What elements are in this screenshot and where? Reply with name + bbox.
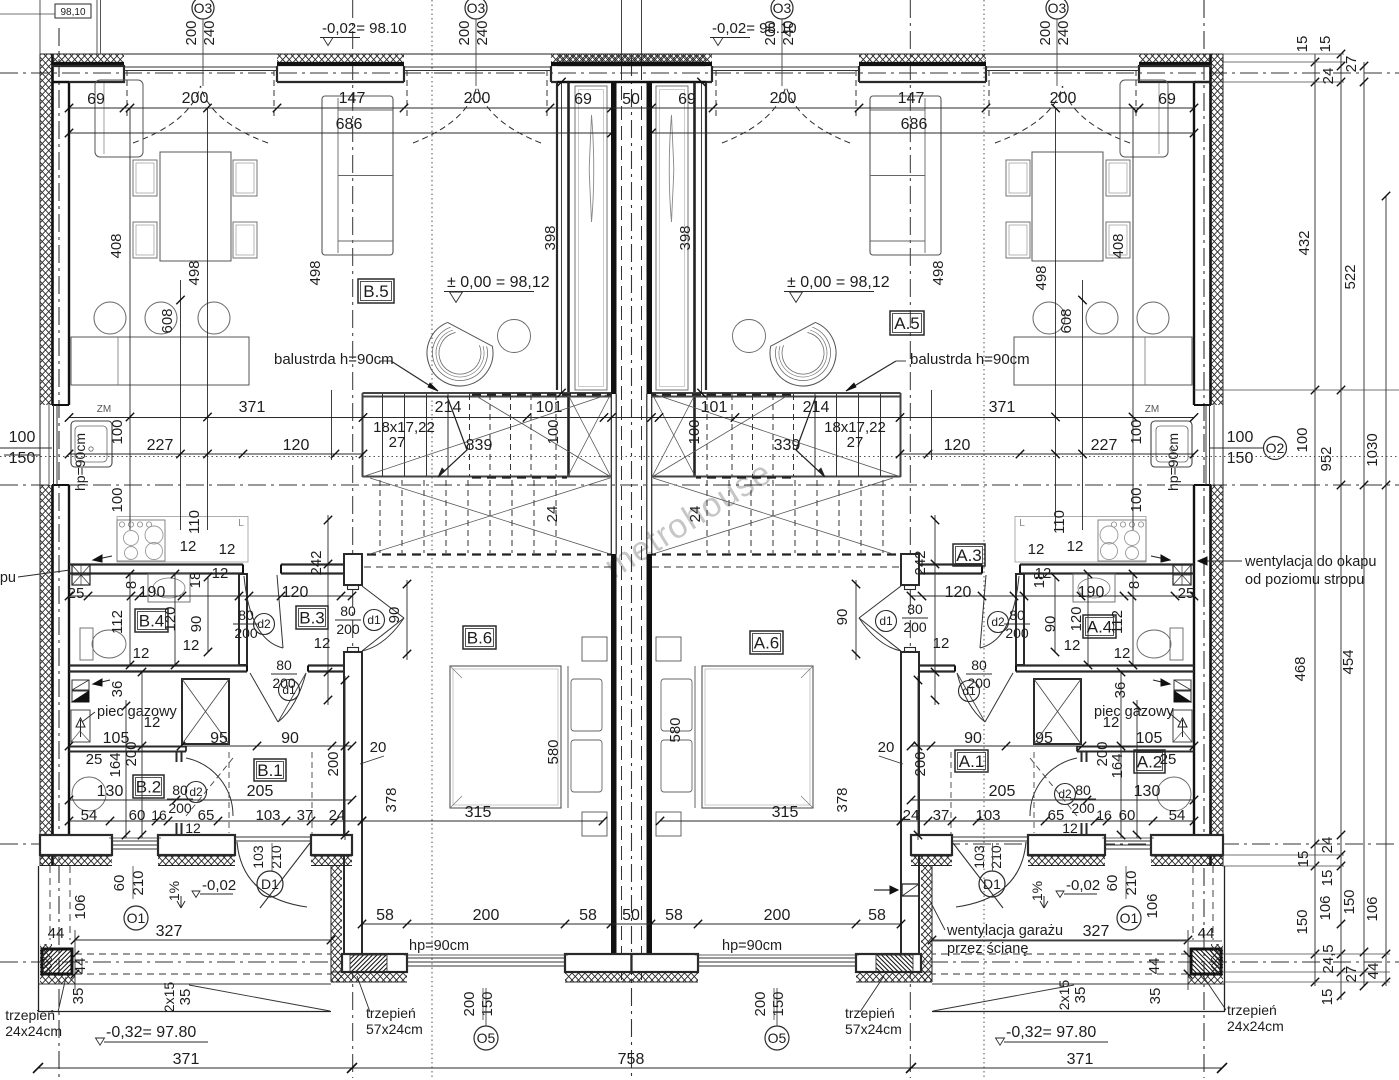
dimension row mirror right bbox=[901, 820, 1194, 822]
svg-text:12: 12 bbox=[185, 820, 201, 836]
svg-text:44: 44 bbox=[48, 925, 65, 942]
svg-text:58: 58 bbox=[665, 907, 683, 924]
svg-text:1%: 1% bbox=[166, 881, 182, 901]
svg-text:20: 20 bbox=[878, 739, 895, 756]
svg-text:-0,32= 97.80: -0,32= 97.80 bbox=[1006, 1024, 1096, 1041]
svg-text:200: 200 bbox=[752, 991, 769, 1016]
dimension row 105-95-90 left bbox=[69, 745, 352, 747]
svg-text:B.1: B.1 bbox=[257, 761, 283, 780]
top-left corner fragment bbox=[55, 4, 91, 18]
svg-text:44: 44 bbox=[1198, 925, 1215, 942]
svg-text:105: 105 bbox=[1136, 730, 1163, 747]
svg-text:44: 44 bbox=[1146, 958, 1163, 975]
svg-text:95: 95 bbox=[1035, 730, 1053, 747]
boiler room fixtures vents boiler basin unit B bbox=[72, 680, 89, 690]
svg-text:O3: O3 bbox=[1048, 0, 1067, 16]
svg-text:103: 103 bbox=[255, 807, 280, 824]
svg-text:90: 90 bbox=[964, 730, 982, 747]
svg-text:210: 210 bbox=[1123, 870, 1140, 895]
svg-text:24: 24 bbox=[544, 506, 561, 523]
svg-text:12: 12 bbox=[1114, 645, 1131, 662]
svg-text:-0,02: -0,02 bbox=[202, 877, 236, 894]
svg-text:O3: O3 bbox=[194, 0, 213, 16]
svg-text:100: 100 bbox=[1128, 419, 1145, 444]
svg-text:24,5: 24,5 bbox=[1320, 944, 1337, 973]
svg-text:wentylacja do okapu: wentylacja do okapu bbox=[1244, 554, 1376, 570]
svg-text:112: 112 bbox=[109, 610, 126, 634]
svg-text:A.6: A.6 bbox=[754, 634, 780, 653]
svg-text:12: 12 bbox=[1028, 541, 1045, 558]
svg-text:wentylacja garażu: wentylacja garażu bbox=[946, 923, 1063, 939]
room label B.3 bbox=[296, 606, 328, 629]
svg-text:A.2: A.2 bbox=[1137, 753, 1163, 772]
svg-text:O2: O2 bbox=[1266, 440, 1285, 456]
svg-text:200: 200 bbox=[473, 907, 500, 924]
svg-text:ZM: ZM bbox=[1145, 404, 1159, 415]
dining table and chairs and cabinet unit B bbox=[160, 152, 231, 261]
svg-text:16: 16 bbox=[1096, 807, 1112, 823]
party wall extension line right top bbox=[641, 0, 643, 66]
svg-text:69: 69 bbox=[1158, 91, 1176, 108]
svg-text:d1: d1 bbox=[282, 683, 296, 697]
axis markers O5 with 200/150 labels bbox=[474, 1026, 498, 1050]
svg-text:d1: d1 bbox=[879, 614, 893, 628]
svg-text:200: 200 bbox=[123, 741, 140, 766]
party wall cavity dashed line right bbox=[641, 66, 643, 982]
svg-text:-0,02: -0,02 bbox=[1066, 877, 1100, 894]
svg-text:100: 100 bbox=[1294, 427, 1311, 452]
svg-text:25: 25 bbox=[1160, 751, 1177, 768]
svg-text:242: 242 bbox=[308, 550, 325, 575]
svg-text:80: 80 bbox=[1009, 607, 1025, 623]
room label B.1 bbox=[254, 759, 286, 781]
svg-text:200: 200 bbox=[770, 90, 797, 107]
dimension row kitchen 227/120 left bbox=[69, 453, 363, 455]
svg-text:200: 200 bbox=[461, 991, 478, 1016]
svg-text:210: 210 bbox=[130, 870, 147, 895]
svg-text:d2: d2 bbox=[1058, 787, 1072, 801]
svg-text:25: 25 bbox=[1178, 585, 1195, 602]
svg-text:315: 315 bbox=[772, 804, 799, 821]
dimension row mid 371/214/101 bbox=[69, 417, 1194, 419]
svg-text:O3: O3 bbox=[467, 0, 486, 16]
svg-text:36: 36 bbox=[1112, 682, 1129, 699]
svg-text:24: 24 bbox=[329, 807, 346, 824]
svg-text:498: 498 bbox=[307, 260, 324, 285]
svg-text:112: 112 bbox=[1109, 610, 1126, 634]
svg-text:120: 120 bbox=[283, 437, 310, 454]
svg-text:952: 952 bbox=[1318, 446, 1335, 471]
svg-text:100: 100 bbox=[1128, 487, 1145, 512]
svg-text:35: 35 bbox=[177, 989, 194, 1006]
svg-text:25: 25 bbox=[68, 585, 85, 602]
svg-text:d2: d2 bbox=[257, 617, 271, 631]
vertical dimension lines unit A mirror bbox=[697, 78, 1198, 840]
bathroom fixtures toilet and basin unit B bbox=[80, 628, 93, 660]
svg-text:580: 580 bbox=[667, 717, 684, 742]
svg-text:90: 90 bbox=[834, 609, 851, 626]
svg-text:210: 210 bbox=[268, 845, 284, 869]
dimension row top openings bbox=[69, 107, 1194, 109]
svg-text:kapu: kapu bbox=[0, 570, 16, 586]
svg-text:454: 454 bbox=[1340, 649, 1357, 674]
svg-text:240: 240 bbox=[1055, 20, 1072, 45]
kitchen unit A mirror bbox=[1014, 302, 1192, 562]
axis markers O3 with 200/240 labels bbox=[192, 0, 214, 19]
svg-text:106: 106 bbox=[72, 894, 89, 919]
svg-text:498: 498 bbox=[1033, 265, 1050, 290]
svg-text:od poziomu stropu: od poziomu stropu bbox=[1245, 572, 1364, 588]
svg-text:A.5: A.5 bbox=[894, 314, 920, 333]
dimension row 327 left bbox=[75, 939, 331, 941]
svg-text:200: 200 bbox=[1050, 90, 1077, 107]
svg-text:686: 686 bbox=[901, 116, 928, 133]
svg-text:hp=90cm: hp=90cm bbox=[409, 938, 469, 954]
svg-text:200: 200 bbox=[1094, 741, 1111, 766]
dimension row 130-205 right bbox=[911, 799, 1194, 801]
svg-text:130: 130 bbox=[97, 783, 124, 800]
axis line vertical left wall bbox=[58, 28, 60, 1078]
svg-text:240: 240 bbox=[201, 20, 218, 45]
svg-text:hp=90cm: hp=90cm bbox=[72, 433, 88, 491]
svg-text:164: 164 bbox=[107, 752, 124, 777]
svg-text:200: 200 bbox=[1037, 20, 1054, 45]
svg-text:214: 214 bbox=[435, 399, 462, 416]
svg-text:120: 120 bbox=[944, 437, 971, 454]
svg-text:35: 35 bbox=[70, 988, 87, 1005]
svg-text:498: 498 bbox=[186, 260, 203, 285]
svg-text:O1: O1 bbox=[127, 910, 146, 926]
svg-text:B.6: B.6 bbox=[467, 629, 493, 648]
svg-text:120: 120 bbox=[1068, 606, 1085, 631]
svg-text:35: 35 bbox=[1147, 988, 1164, 1005]
axis line horizontal lower-left wall left stub bbox=[0, 843, 52, 845]
interior door swings unit A mirror bbox=[859, 575, 1019, 722]
entry strip and party wall unit B bbox=[567, 82, 570, 477]
svg-text:190: 190 bbox=[1078, 584, 1105, 601]
svg-text:608: 608 bbox=[159, 308, 176, 333]
svg-text:242: 242 bbox=[912, 550, 929, 575]
svg-text:150: 150 bbox=[9, 450, 36, 467]
svg-text:15: 15 bbox=[1319, 989, 1336, 1006]
svg-text:44: 44 bbox=[72, 958, 89, 975]
svg-text:trzepień: trzepień bbox=[845, 1005, 895, 1021]
svg-text:315: 315 bbox=[465, 804, 492, 821]
axis marker O2 and right window dims bbox=[1210, 447, 1263, 449]
dimension row 54-60-16-65-103-37-24 left bbox=[69, 820, 362, 822]
svg-text:2x15: 2x15 bbox=[1056, 980, 1072, 1011]
svg-text:-0,02= 98.10: -0,02= 98.10 bbox=[712, 20, 797, 37]
svg-text:24: 24 bbox=[903, 807, 920, 824]
garage vent duct block unit A bbox=[902, 884, 919, 896]
party wall cavity dashed line left bbox=[621, 66, 623, 982]
dimension row 315 right bbox=[660, 820, 901, 822]
dimension row top 686 left bbox=[69, 132, 612, 134]
svg-text:200: 200 bbox=[464, 90, 491, 107]
room label A.6 bbox=[750, 631, 783, 654]
svg-text:200: 200 bbox=[1071, 800, 1095, 816]
svg-text:100: 100 bbox=[109, 487, 126, 512]
svg-text:408: 408 bbox=[108, 233, 125, 258]
svg-text:d1: d1 bbox=[367, 613, 381, 627]
svg-text:18: 18 bbox=[187, 572, 204, 589]
svg-text:240: 240 bbox=[474, 20, 491, 45]
svg-text:100: 100 bbox=[1227, 429, 1254, 446]
svg-text:90: 90 bbox=[1042, 616, 1059, 633]
svg-text:686: 686 bbox=[336, 116, 363, 133]
svg-text:371: 371 bbox=[989, 399, 1016, 416]
left window dims 100/150 bbox=[0, 447, 52, 449]
svg-text:d2: d2 bbox=[991, 615, 1005, 629]
svg-text:27: 27 bbox=[847, 434, 864, 451]
room label B.5 bbox=[358, 279, 394, 303]
svg-text:58: 58 bbox=[376, 907, 394, 924]
svg-text:408: 408 bbox=[1110, 233, 1127, 258]
svg-text:A.1: A.1 bbox=[959, 752, 985, 771]
svg-text:37: 37 bbox=[933, 807, 950, 824]
room label A.1 bbox=[955, 750, 988, 772]
svg-text:piec gazowy: piec gazowy bbox=[97, 704, 178, 720]
svg-text:37: 37 bbox=[297, 807, 314, 824]
svg-text:1030: 1030 bbox=[1364, 433, 1381, 466]
axis line horizontal top wall bbox=[0, 72, 1399, 74]
svg-text:24: 24 bbox=[1319, 837, 1336, 854]
svg-text:147: 147 bbox=[898, 90, 925, 107]
svg-text:d2: d2 bbox=[189, 785, 203, 799]
svg-text:balustrda h=90cm: balustrda h=90cm bbox=[910, 351, 1030, 368]
kitchen vent symbol unit B bbox=[72, 565, 90, 585]
bottom overall dimension line bbox=[38, 1067, 1222, 1069]
svg-text:200: 200 bbox=[325, 751, 342, 776]
svg-text:8: 8 bbox=[123, 581, 140, 589]
dotted reference line horizontal bbox=[0, 456, 1399, 458]
staircase unit B treads, void cross, break line bbox=[363, 392, 612, 394]
room label A.3 bbox=[953, 544, 985, 566]
staircase unit A mirror bbox=[652, 393, 911, 567]
svg-text:398: 398 bbox=[542, 225, 559, 250]
section dotted line unit A bbox=[983, 0, 985, 1078]
svg-text:15: 15 bbox=[1295, 851, 1312, 868]
svg-text:58: 58 bbox=[868, 907, 886, 924]
svg-text:trzepień: trzepień bbox=[1227, 1002, 1277, 1018]
room label A.5 bbox=[890, 311, 924, 335]
room label B.4 bbox=[135, 609, 168, 632]
margin dimension chain lines right bbox=[1314, 54, 1316, 986]
wing wall axis vertical unit A bbox=[909, 0, 911, 1078]
svg-text:371: 371 bbox=[1067, 1051, 1094, 1068]
svg-text:24: 24 bbox=[687, 506, 704, 523]
svg-text:100: 100 bbox=[686, 419, 703, 444]
svg-text:B.3: B.3 bbox=[299, 609, 325, 628]
svg-text:12: 12 bbox=[133, 645, 150, 662]
svg-text:80: 80 bbox=[907, 601, 923, 617]
svg-text:200: 200 bbox=[168, 800, 192, 816]
party wall extension line left top bbox=[621, 0, 623, 66]
svg-text:130: 130 bbox=[1134, 783, 1161, 800]
svg-text:110: 110 bbox=[186, 510, 203, 534]
svg-text:200: 200 bbox=[456, 20, 473, 45]
room label A.2 bbox=[1134, 750, 1165, 773]
svg-text:190: 190 bbox=[139, 584, 166, 601]
axis line vertical party wall centre bbox=[631, 58, 633, 1078]
svg-text:150: 150 bbox=[479, 991, 496, 1016]
kitchen unit B island, stools, worktop, cooker, sink bbox=[71, 337, 249, 385]
bottom exterior wall unit A mirror bbox=[911, 835, 1223, 908]
svg-text:B.5: B.5 bbox=[363, 282, 389, 301]
svg-text:20: 20 bbox=[370, 739, 387, 756]
svg-text:ZM: ZM bbox=[97, 404, 111, 415]
svg-text:24x24cm: 24x24cm bbox=[5, 1023, 62, 1039]
svg-text:120: 120 bbox=[282, 584, 309, 601]
svg-text:60: 60 bbox=[129, 807, 146, 824]
svg-text:90: 90 bbox=[188, 616, 205, 633]
svg-text:69: 69 bbox=[574, 91, 592, 108]
svg-text:18: 18 bbox=[1031, 572, 1048, 589]
axis line horizontal bottom wall bbox=[0, 961, 1399, 963]
svg-text:839: 839 bbox=[466, 437, 493, 454]
svg-text:98,10: 98,10 bbox=[60, 7, 85, 18]
entry strip and party wall unit A mirror bbox=[647, 82, 695, 972]
svg-text:327: 327 bbox=[1083, 923, 1110, 940]
kitchen vent symbol unit A mirror bbox=[1151, 555, 1191, 585]
svg-text:339: 339 bbox=[774, 437, 801, 454]
svg-text:36: 36 bbox=[109, 681, 126, 698]
svg-text:100: 100 bbox=[545, 419, 562, 444]
svg-text:12: 12 bbox=[183, 637, 200, 654]
svg-text:O3: O3 bbox=[773, 0, 792, 16]
svg-text:327: 327 bbox=[156, 923, 183, 940]
svg-text:106: 106 bbox=[1364, 896, 1381, 921]
svg-text:200: 200 bbox=[182, 90, 209, 107]
svg-text:12: 12 bbox=[314, 635, 331, 652]
bed and nightstands unit B bedroom bbox=[450, 666, 561, 808]
sofa armchair side table unit B bbox=[322, 96, 393, 255]
interior door swings unit B bbox=[244, 576, 283, 648]
svg-text:D1: D1 bbox=[983, 876, 1001, 892]
dimension row top 686 right bbox=[652, 132, 1195, 134]
svg-text:25: 25 bbox=[86, 751, 103, 768]
svg-text:24x24cm: 24x24cm bbox=[1227, 1018, 1284, 1034]
svg-text:trzepień: trzepień bbox=[366, 1005, 416, 1021]
svg-text:150: 150 bbox=[1341, 889, 1358, 914]
svg-text:27: 27 bbox=[1343, 966, 1360, 983]
svg-text:371: 371 bbox=[173, 1051, 200, 1068]
svg-text:371: 371 bbox=[239, 399, 266, 416]
svg-text:90: 90 bbox=[281, 730, 299, 747]
exterior walls unit B left+top with insulation hatch and french doors bbox=[39, 54, 41, 866]
svg-text:100: 100 bbox=[109, 419, 126, 444]
svg-text:trzepień: trzepień bbox=[5, 1007, 55, 1023]
svg-text:57x24cm: 57x24cm bbox=[845, 1021, 902, 1037]
svg-text:B.2: B.2 bbox=[136, 778, 162, 797]
svg-text:57x24cm: 57x24cm bbox=[366, 1021, 423, 1037]
svg-text:101: 101 bbox=[701, 399, 728, 416]
interior walls unit B lower rooms bbox=[69, 563, 352, 565]
dining table and chairs and cabinet unit A mirror bbox=[1006, 80, 1168, 261]
svg-text:200: 200 bbox=[336, 621, 360, 637]
svg-text:hp=90cm: hp=90cm bbox=[1165, 433, 1181, 491]
svg-text:150: 150 bbox=[1294, 909, 1311, 934]
svg-text:piec gazowy: piec gazowy bbox=[1094, 704, 1175, 720]
svg-text:50: 50 bbox=[622, 91, 640, 108]
svg-text:468: 468 bbox=[1292, 656, 1309, 681]
room label B.2 bbox=[133, 775, 164, 798]
svg-text:O1: O1 bbox=[1120, 910, 1139, 926]
svg-text:24: 24 bbox=[1320, 68, 1337, 85]
porch terrace unit A mirror bbox=[932, 866, 1225, 1012]
svg-text:210: 210 bbox=[988, 845, 1004, 869]
bottom wall of bedroom wing unit B with window O5 bbox=[342, 954, 407, 972]
svg-text:378: 378 bbox=[834, 787, 851, 812]
dimension row 327 right bbox=[932, 939, 1188, 941]
svg-text:O5: O5 bbox=[768, 1030, 787, 1046]
porch terrace unit B with trzepien block bbox=[38, 866, 40, 1012]
interior walls unit A lower rooms mirror bbox=[901, 554, 1194, 954]
svg-text:378: 378 bbox=[383, 787, 400, 812]
svg-text:12: 12 bbox=[212, 565, 229, 582]
svg-text:60: 60 bbox=[1104, 875, 1121, 892]
svg-text:-0,32= 97.80: -0,32= 97.80 bbox=[106, 1024, 196, 1041]
svg-text:80: 80 bbox=[340, 603, 356, 619]
svg-text:200: 200 bbox=[183, 20, 200, 45]
svg-text:106: 106 bbox=[1144, 893, 1161, 918]
exterior walls unit A right+top mirror bbox=[557, 54, 1223, 866]
svg-text:100: 100 bbox=[9, 429, 36, 446]
svg-text:2x15: 2x15 bbox=[161, 982, 177, 1013]
svg-text:205: 205 bbox=[247, 783, 274, 800]
svg-text:227: 227 bbox=[147, 437, 174, 454]
axis line vertical right wall bbox=[1203, 0, 1205, 1078]
svg-text:432: 432 bbox=[1296, 230, 1313, 255]
svg-text:205: 205 bbox=[989, 783, 1016, 800]
svg-text:69: 69 bbox=[87, 91, 105, 108]
svg-text:12: 12 bbox=[1062, 820, 1078, 836]
axis line horizontal lower wall right part bbox=[911, 843, 1399, 845]
svg-text:69: 69 bbox=[678, 91, 696, 108]
svg-text:227: 227 bbox=[1091, 437, 1118, 454]
section dotted line unit B bbox=[431, 0, 433, 1078]
svg-text:54: 54 bbox=[81, 807, 98, 824]
svg-text:35: 35 bbox=[1072, 987, 1089, 1004]
svg-text:O5: O5 bbox=[477, 1030, 496, 1046]
boiler room fixtures unit A mirror bbox=[1153, 679, 1192, 811]
svg-text:± 0,00 = 98,12: ± 0,00 = 98,12 bbox=[787, 274, 890, 291]
svg-text:15: 15 bbox=[1319, 870, 1336, 887]
svg-text:hp=90cm: hp=90cm bbox=[722, 938, 782, 954]
svg-text:150: 150 bbox=[770, 991, 787, 1016]
svg-text:200: 200 bbox=[764, 907, 791, 924]
room label A.4 bbox=[1083, 615, 1116, 638]
svg-text:498: 498 bbox=[930, 260, 947, 285]
svg-text:balustrda h=90cm: balustrda h=90cm bbox=[274, 351, 394, 368]
dimension row 130-205 left bbox=[69, 799, 352, 801]
door markers d1 d2 circles bbox=[254, 614, 275, 635]
svg-text:12: 12 bbox=[219, 541, 236, 558]
svg-text:200: 200 bbox=[1005, 625, 1029, 641]
svg-text:12: 12 bbox=[933, 635, 950, 652]
svg-text:398: 398 bbox=[677, 225, 694, 250]
svg-text:58: 58 bbox=[579, 907, 597, 924]
svg-text:103: 103 bbox=[971, 845, 987, 869]
bed and nightstands unit A mirror bbox=[656, 637, 813, 836]
svg-text:D1: D1 bbox=[261, 876, 279, 892]
svg-text:16: 16 bbox=[151, 807, 167, 823]
svg-text:103: 103 bbox=[250, 845, 266, 869]
svg-text:80: 80 bbox=[1075, 782, 1091, 798]
svg-text:103: 103 bbox=[975, 807, 1000, 824]
svg-text:12: 12 bbox=[1067, 538, 1084, 555]
svg-text:608: 608 bbox=[1058, 308, 1075, 333]
